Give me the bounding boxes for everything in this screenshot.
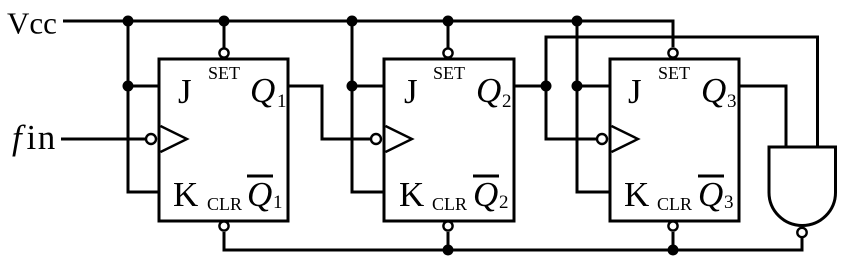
wire CLR2 stub [447, 232, 450, 250]
flip-flop U1 box [159, 59, 288, 221]
SET1 bubble [219, 48, 228, 57]
wire Vcc drop FF2 [352, 21, 384, 192]
CLR1 bubble [219, 221, 228, 230]
junction dot J1 row [123, 81, 134, 92]
wire fin clock input [61, 138, 146, 141]
junction dot CLR bus x673 [668, 245, 679, 256]
svg-text:Q: Q [250, 71, 275, 110]
wire Q3 to NAND input [739, 86, 786, 147]
clock3 triangle [612, 126, 639, 152]
SET2 bubble [443, 48, 452, 57]
wire J2 feed [352, 85, 384, 88]
wire J3 feed [577, 85, 610, 88]
svg-text:Q: Q [473, 175, 498, 214]
junction dot CLR bus x448 [443, 245, 454, 256]
junction dot top bus x448 [443, 16, 454, 27]
svg-text:3: 3 [724, 192, 734, 213]
svg-text:K: K [624, 175, 649, 214]
svg-text:1: 1 [277, 91, 287, 112]
wire CLR3 stub [672, 232, 675, 250]
svg-text:K: K [173, 175, 198, 214]
junction dot top bus x224 [219, 16, 230, 27]
wire Q2 out [514, 85, 546, 88]
wire Q2 to NAND input [546, 37, 818, 147]
flip-flop U2 box [384, 59, 514, 221]
CLR2 bubble [443, 221, 452, 230]
wire CLR bottom bus [224, 232, 802, 250]
svg-text:Vcc: Vcc [7, 6, 57, 41]
wire Q1 to clock2 [288, 86, 371, 139]
junction dot top bus x128 [123, 16, 134, 27]
SET3 bubble [668, 48, 677, 57]
svg-text:CLR: CLR [207, 194, 242, 214]
label Q1bar overline [247, 175, 273, 178]
wire J1 feed [128, 85, 159, 88]
clock2 bubble [371, 134, 381, 144]
svg-text:3: 3 [727, 91, 737, 112]
svg-text:CLR: CLR [432, 194, 467, 214]
svg-text:Q: Q [698, 175, 723, 214]
NAND gate U4 [769, 147, 836, 226]
svg-text:2: 2 [502, 91, 512, 112]
label Q2bar overline [473, 175, 499, 178]
svg-text:fin: fin [12, 118, 57, 157]
svg-text:J: J [404, 72, 418, 111]
clock2 triangle [386, 126, 413, 152]
wire SET2 stub [447, 21, 450, 48]
wire Vcc drop FF1 [128, 21, 159, 192]
wire Vcc drop FF3 [577, 21, 610, 192]
junction dot Q2 branch [541, 81, 552, 92]
svg-text:J: J [178, 72, 192, 111]
junction dot top bus x577 [572, 16, 583, 27]
wire Q2 to clock3 [546, 86, 598, 139]
flip-flop U3 box [610, 59, 739, 221]
clock1 triangle [161, 126, 188, 152]
junction dot top bus x352 [347, 16, 358, 27]
wire Vcc top bus [63, 21, 673, 47]
svg-text:Q: Q [701, 71, 726, 110]
svg-text:SET: SET [433, 63, 465, 83]
junction dot J2 row [347, 81, 358, 92]
svg-text:CLR: CLR [657, 194, 692, 214]
svg-text:Q: Q [247, 175, 272, 214]
wire SET1 stub [223, 21, 226, 48]
svg-text:Q: Q [476, 71, 501, 110]
svg-text:K: K [399, 175, 424, 214]
clock1 bubble [146, 134, 156, 144]
junction dot J3 row [572, 81, 583, 92]
CLR3 bubble [668, 221, 677, 230]
clock3 bubble [597, 134, 607, 144]
NAND output bubble [797, 228, 806, 237]
svg-text:SET: SET [208, 63, 240, 83]
svg-text:1: 1 [273, 192, 283, 213]
label Q3bar overline [698, 175, 724, 178]
svg-text:J: J [628, 72, 642, 111]
svg-text:2: 2 [499, 192, 509, 213]
svg-text:SET: SET [658, 63, 690, 83]
